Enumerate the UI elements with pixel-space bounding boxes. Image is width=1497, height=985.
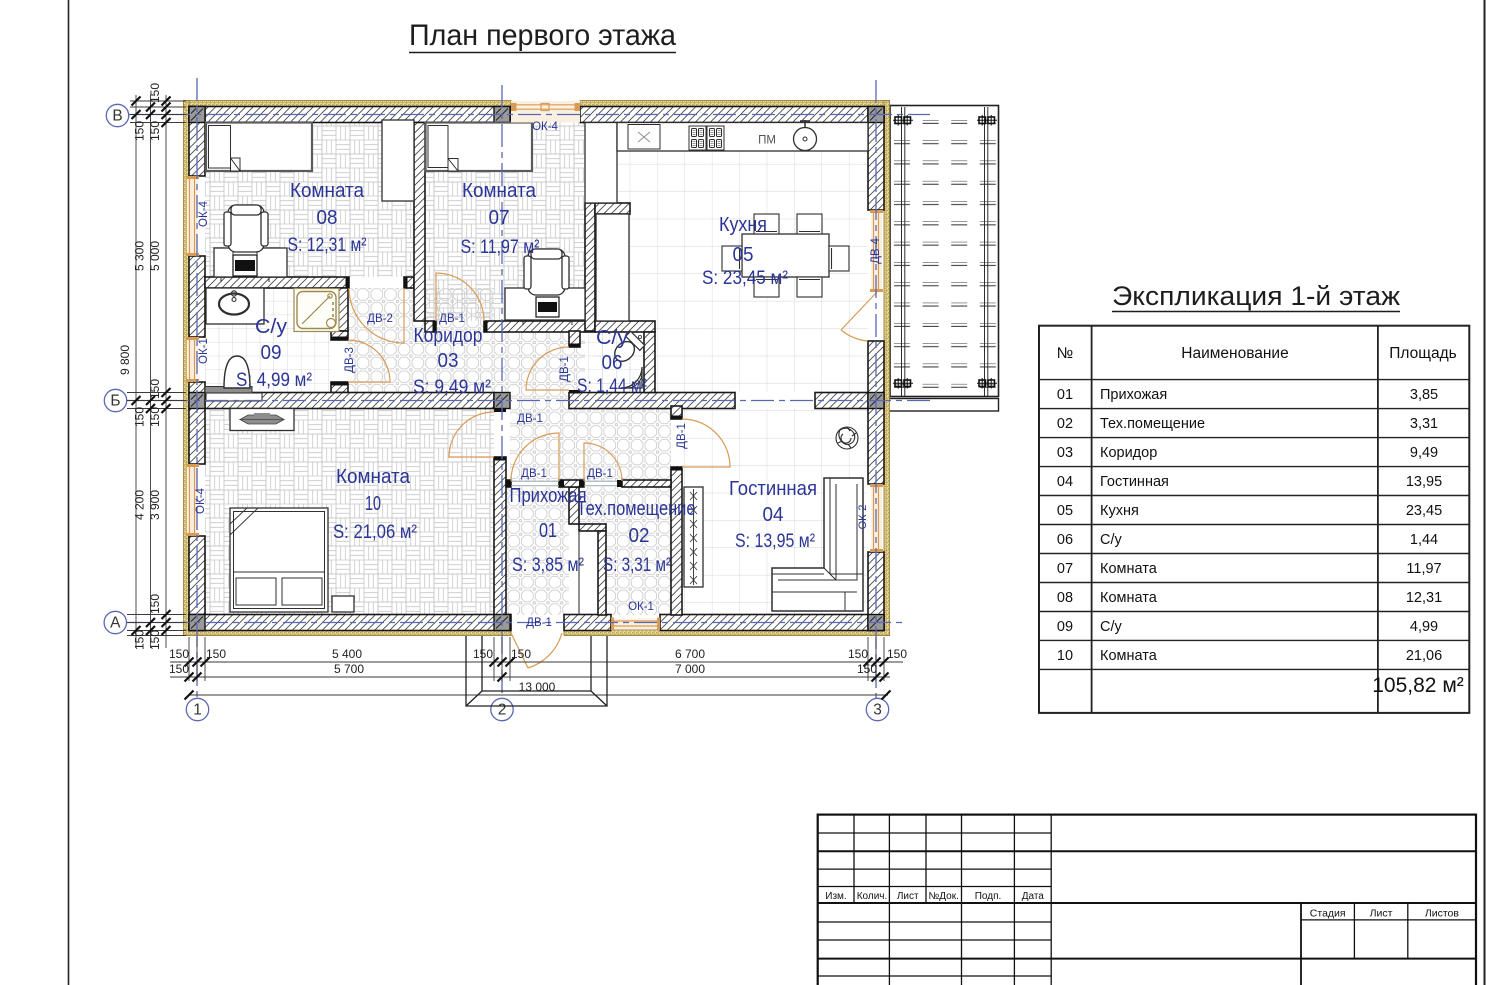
svg-text:S: 12,31 м²: S: 12,31 м² [288, 234, 367, 256]
wall exterior top right segment [580, 107, 884, 123]
desk room 07 [505, 288, 585, 320]
svg-text:Коридор: Коридор [414, 324, 483, 347]
heater living room [684, 487, 703, 587]
title block stamp [818, 815, 1476, 985]
wall axis B middle segment [569, 393, 735, 409]
kitchen stove [689, 126, 724, 150]
door DV-4 kitchen terrace [841, 292, 877, 341]
terrace corner fixings [893, 115, 997, 389]
svg-text:04: 04 [763, 503, 784, 526]
svg-text:04: 04 [1057, 474, 1073, 490]
dimension labels left [118, 83, 162, 650]
bed room 07 [426, 123, 533, 172]
svg-text:ОК-2: ОК-2 [857, 505, 869, 530]
svg-text:105,82 м²: 105,82 м² [1372, 674, 1464, 697]
sheet frame left border [68, 0, 70, 985]
window part of door DV-4 [870, 210, 883, 292]
dresser room 10 [230, 409, 294, 431]
svg-text:Гостинная: Гостинная [729, 477, 817, 500]
axis line Bb horizontal [127, 400, 930, 402]
tile floor corridor 03 [348, 288, 585, 409]
svg-text:4 200: 4 200 [133, 490, 147, 520]
door DV-1 living room [682, 419, 730, 467]
wall exterior bottom middle segment [564, 615, 611, 631]
svg-text:А: А [110, 615, 121, 632]
insulation bottom-left segment [184, 630, 512, 636]
wall hall south stub left [506, 480, 511, 487]
door DV-2 room 08 [349, 288, 404, 343]
svg-text:ДВ-1: ДВ-1 [676, 423, 688, 449]
door DV-1 room 07 [436, 273, 484, 321]
computer room 07 [523, 297, 572, 325]
svg-text:№Док.: №Док. [929, 891, 959, 902]
svg-text:150: 150 [169, 647, 189, 661]
sink bathroom 06 [621, 367, 642, 388]
bed room 10 [230, 508, 328, 612]
door DV-1 hallway 01 [511, 433, 559, 481]
door DV-3 bathroom 09 [348, 340, 390, 382]
window OK-1 left wall bathroom 09 [186, 337, 199, 382]
svg-text:С/у: С/у [596, 326, 629, 349]
wall room08 south [205, 277, 349, 288]
svg-text:С/у: С/у [1100, 619, 1123, 635]
svg-text:7 000: 7 000 [675, 662, 705, 676]
tile floor kitchen 05 [595, 123, 868, 393]
wall exterior top left segment [189, 107, 511, 123]
svg-text:S: 9,49 м²: S: 9,49 м² [413, 376, 491, 398]
svg-text:Тех.помещение: Тех.помещение [577, 497, 696, 520]
room label Тех.помещение 02 [577, 497, 696, 547]
svg-text:Изм.: Изм. [825, 891, 846, 902]
wall axis B right segment [815, 393, 868, 409]
kitchen pot [794, 120, 817, 151]
svg-text:06: 06 [1057, 532, 1073, 548]
wall hallway01 tech02 upper [569, 487, 579, 524]
wall bathroom06 east [644, 332, 655, 393]
structural columns at axis intersections [189, 107, 884, 631]
svg-text:Площадь: Площадь [1389, 345, 1456, 362]
svg-text:08: 08 [1057, 590, 1073, 606]
wall exterior left segment 4 [189, 536, 205, 631]
svg-text:09: 09 [1057, 619, 1073, 635]
window OK-4 left wall room 10 [186, 464, 199, 536]
svg-text:Тех.помещение: Тех.помещение [1100, 416, 1205, 432]
room label Коридор 03 [414, 324, 483, 372]
entrance door DV-1 [511, 633, 562, 668]
desk room 08 [214, 248, 287, 277]
room label Комната 07 [462, 179, 537, 229]
svg-text:3 900: 3 900 [148, 490, 162, 520]
insulation left [184, 101, 190, 636]
door jamb caps [331, 277, 682, 487]
axis bubble A [104, 611, 126, 633]
parquet floor room 07 [425, 123, 585, 322]
explication header [1057, 345, 1457, 362]
svg-text:1: 1 [193, 702, 202, 719]
room label С/у 06 [596, 326, 629, 374]
svg-text:13 000: 13 000 [519, 680, 556, 694]
svg-text:3: 3 [873, 702, 882, 719]
door DV-1 bathroom 06 [526, 347, 569, 390]
svg-text:Прихожая: Прихожая [510, 484, 587, 507]
wall corridor north jamb [425, 321, 436, 332]
svg-text:12,31: 12,31 [1406, 590, 1442, 606]
room label Комната 10 [336, 465, 411, 515]
svg-text:Кухня: Кухня [719, 213, 767, 236]
svg-text:02: 02 [1057, 416, 1073, 432]
plant living room [836, 427, 858, 449]
svg-text:Наименование: Наименование [1181, 345, 1288, 362]
svg-text:Коридор: Коридор [1100, 445, 1157, 461]
insulation top-left segment [184, 101, 512, 107]
window OK-1 bottom wall tech 02 [611, 618, 660, 631]
svg-text:10: 10 [1057, 648, 1073, 664]
svg-text:150: 150 [848, 647, 868, 661]
svg-text:150: 150 [148, 630, 162, 650]
wall exterior bottom right segment [660, 615, 884, 631]
wall bathroom09 east jamb bottom [331, 382, 348, 393]
wall between rooms 08 and 07 [414, 123, 425, 322]
wall kitchen stub [595, 203, 630, 214]
explication title [1112, 281, 1400, 312]
sheet frame right border [1484, 0, 1486, 985]
svg-text:150: 150 [148, 594, 162, 614]
svg-text:ДВ-2: ДВ-2 [367, 313, 393, 325]
axis bubble 1 [186, 698, 208, 720]
svg-text:ОК-1: ОК-1 [198, 338, 210, 364]
room label Комната 08 [290, 179, 365, 229]
svg-text:Комната: Комната [1100, 590, 1158, 606]
svg-text:150: 150 [511, 647, 531, 661]
wall axis B left segment [205, 393, 494, 409]
svg-text:S: 1,44 м²: S: 1,44 м² [577, 375, 647, 397]
svg-text:Лист: Лист [897, 891, 919, 902]
bed room 08 [206, 123, 312, 172]
vanity bathroom 09 [206, 288, 264, 324]
dimension ticks bottom [185, 658, 891, 700]
svg-text:Подп.: Подп. [975, 891, 1002, 902]
tile floor tech room 02 [579, 487, 671, 615]
svg-text:ДВ-1: ДВ-1 [439, 313, 465, 325]
svg-text:10: 10 [365, 492, 381, 515]
chair room 08 [224, 205, 268, 252]
svg-text:05: 05 [1057, 503, 1073, 519]
svg-text:S: 11,97 м²: S: 11,97 м² [461, 236, 540, 258]
svg-text:150: 150 [148, 379, 162, 399]
room label С/у 09 [255, 315, 288, 364]
hallway01 niche edge [578, 531, 580, 615]
svg-text:План первого этажа: План первого этажа [409, 19, 676, 52]
tile floor hall [510, 409, 671, 481]
svg-text:Комната: Комната [290, 179, 365, 202]
opening threshold tech02 [584, 481, 622, 485]
svg-text:ДВ-1: ДВ-1 [526, 617, 552, 629]
wall bathroom06 west jamb [569, 331, 580, 347]
svg-text:С/у: С/у [255, 315, 288, 338]
svg-text:150: 150 [887, 647, 907, 661]
terrace deck [890, 106, 999, 397]
svg-text:9,49: 9,49 [1410, 445, 1438, 461]
svg-text:9 800: 9 800 [118, 345, 132, 375]
svg-text:№: № [1057, 345, 1074, 362]
wall exterior left segment 2 [189, 256, 205, 337]
axis line 2 vertical [501, 85, 503, 698]
svg-text:Кухня: Кухня [1100, 503, 1139, 519]
dimension extension lines left [127, 95, 186, 648]
parquet floor room 08 [205, 123, 414, 278]
tile floor living room 04 [682, 409, 868, 615]
svg-text:150: 150 [133, 630, 147, 650]
kitchen counter [617, 123, 868, 152]
svg-text:ОК-4: ОК-4 [532, 121, 558, 133]
axis line A horizontal [127, 622, 907, 624]
wall hallway01 tech02 step [579, 524, 606, 531]
svg-text:01: 01 [1057, 387, 1073, 403]
wall corridor north [484, 321, 595, 332]
svg-text:150: 150 [169, 662, 189, 676]
wall hallway01 tech02 lower [598, 531, 606, 615]
svg-text:ОК-4: ОК-4 [195, 487, 207, 513]
axis line 1 vertical [196, 78, 198, 698]
parquet floor room 10 [205, 409, 494, 615]
svg-text:23,45: 23,45 [1406, 503, 1442, 519]
wall bathroom09 east jamb top [331, 331, 348, 340]
drawing title [409, 19, 676, 53]
svg-text:Б: Б [110, 393, 120, 410]
tile floor bathroom 06 [580, 332, 644, 393]
svg-text:Комната: Комната [1100, 648, 1158, 664]
sofa living room [772, 478, 863, 611]
door DV-1 room 10 [449, 412, 494, 457]
svg-text:Листов: Листов [1425, 908, 1460, 920]
svg-text:150: 150 [148, 83, 162, 103]
svg-text:1,44: 1,44 [1410, 532, 1438, 548]
axis line 3 vertical [875, 80, 877, 698]
svg-text:150: 150 [473, 647, 493, 661]
window OK-2 right wall living room [870, 484, 883, 552]
kitchen pantry cabinet [596, 214, 629, 321]
door DV-1 tech room 02 [584, 443, 622, 481]
svg-text:07: 07 [489, 206, 510, 229]
svg-text:150: 150 [857, 662, 877, 676]
svg-text:Дата: Дата [1022, 891, 1045, 902]
svg-text:150: 150 [133, 407, 147, 427]
nightstand room 10 [332, 596, 354, 612]
svg-text:S: 13,95 м²: S: 13,95 м² [735, 530, 815, 552]
dimension extension lines bottom [170, 637, 903, 695]
room label Гостинная 04 [729, 477, 817, 526]
svg-text:13,95: 13,95 [1406, 474, 1442, 490]
svg-text:11,97: 11,97 [1406, 561, 1441, 577]
explication table grid [1039, 326, 1469, 713]
svg-text:02: 02 [629, 524, 650, 547]
kitchen table [742, 234, 829, 277]
svg-text:2: 2 [498, 702, 507, 719]
svg-text:07: 07 [1057, 561, 1073, 577]
svg-text:6 700: 6 700 [675, 647, 705, 661]
wall room07 kitchen [585, 203, 595, 331]
explication rows [1057, 387, 1442, 664]
svg-text:01: 01 [539, 519, 557, 542]
window OK-4 top wall room 07 [511, 101, 580, 123]
wall living room west [671, 467, 682, 615]
svg-text:150: 150 [133, 121, 147, 141]
axis bubble 2 [491, 698, 513, 720]
dimension ticks left chains [132, 97, 171, 636]
wardrobe room 08 [382, 120, 414, 201]
wall exterior right segment 1 [868, 107, 884, 211]
wall exterior left segment 1 [189, 107, 205, 177]
insulation right [884, 101, 890, 636]
svg-text:Комната: Комната [1100, 561, 1158, 577]
dimension labels bottom [169, 647, 907, 694]
shower bathroom 09 [294, 289, 339, 332]
svg-text:03: 03 [1057, 445, 1073, 461]
svg-text:ДВ-1: ДВ-1 [559, 356, 571, 382]
svg-text:ОК-1: ОК-1 [628, 601, 654, 613]
window OK-4 left wall room 08 [186, 176, 199, 256]
svg-text:150: 150 [148, 121, 162, 141]
svg-text:ОК-4: ОК-4 [198, 200, 210, 226]
computer room 08 [221, 251, 269, 282]
toilet bathroom 06 [610, 331, 645, 366]
svg-text:5 700: 5 700 [334, 662, 364, 676]
axis line B horizontal [128, 114, 930, 116]
svg-text:ДВ-1: ДВ-1 [587, 468, 613, 480]
svg-text:Гостинная: Гостинная [1100, 474, 1169, 490]
svg-text:09: 09 [261, 341, 282, 364]
svg-text:21,06: 21,06 [1406, 648, 1442, 664]
tile floor hallway 01 [506, 487, 569, 615]
svg-text:03: 03 [438, 349, 459, 372]
svg-text:4,99: 4,99 [1410, 619, 1438, 635]
svg-text:ПМ: ПМ [758, 135, 776, 147]
svg-text:5 000: 5 000 [148, 241, 162, 271]
svg-text:В: В [112, 108, 122, 125]
svg-text:ДВ-4: ДВ-4 [870, 238, 882, 264]
svg-text:08: 08 [317, 206, 338, 229]
svg-text:S: 23,45 м²: S: 23,45 м² [702, 267, 788, 289]
svg-text:06: 06 [602, 351, 623, 374]
svg-text:3,85: 3,85 [1410, 387, 1438, 403]
wall bathroom09 east upper [331, 288, 348, 331]
axis bubble 3 [866, 698, 888, 720]
room label Прихожая 01 [510, 484, 587, 542]
wall room08 south jamb [404, 277, 414, 288]
svg-text:ДВ-3: ДВ-3 [344, 347, 356, 373]
wall exterior left segment 3 [189, 382, 205, 464]
toilet bathroom 09 [205, 356, 262, 401]
svg-text:3,31: 3,31 [1410, 416, 1438, 432]
svg-text:ДВ-1: ДВ-1 [521, 468, 547, 480]
svg-text:С/у: С/у [1100, 532, 1123, 548]
wall hall south stub middle [559, 480, 584, 487]
svg-text:Комната: Комната [462, 179, 537, 202]
axis bubble V [106, 104, 128, 126]
tile floor bathroom 09 [205, 288, 331, 393]
svg-text:5 300: 5 300 [133, 241, 147, 271]
wall exterior right segment 2 [868, 341, 884, 484]
kitchen sink [628, 125, 660, 150]
wall hallway01 west [494, 457, 506, 615]
wall exterior bottom left segment [189, 615, 511, 631]
svg-text:S: 3,31 м²: S: 3,31 м² [603, 554, 671, 576]
wall hall south stub right [622, 480, 671, 487]
svg-text:5 400: 5 400 [332, 647, 362, 661]
wall exterior right segment 3 [868, 552, 884, 631]
svg-text:Комната: Комната [336, 465, 411, 488]
svg-text:Экспликация 1-й этаж: Экспликация 1-й этаж [1112, 281, 1400, 311]
svg-text:Колич.: Колич. [857, 891, 888, 902]
wall bathroom06 north [595, 321, 655, 332]
svg-text:05: 05 [733, 243, 754, 266]
kitchen chairs [722, 214, 849, 297]
insulation bottom-right segment [564, 630, 890, 636]
svg-text:150: 150 [206, 647, 226, 661]
entrance porch [466, 636, 607, 706]
kitchen tall cabinet [585, 123, 617, 204]
terrace bottom step [868, 399, 999, 412]
insulation top-right segment [580, 101, 890, 107]
svg-text:Прихожая: Прихожая [1100, 387, 1167, 403]
chair room 07 [524, 249, 569, 295]
svg-text:S: 3,85 м²: S: 3,85 м² [512, 554, 584, 576]
svg-text:Лист: Лист [1370, 908, 1393, 920]
room label Кухня 05 [719, 213, 767, 266]
opening threshold hallway01 [511, 481, 559, 485]
svg-text:Стадия: Стадия [1310, 908, 1346, 920]
axis bubble B [104, 389, 126, 411]
wall living room west jamb [671, 406, 682, 419]
title block labels [825, 891, 1459, 920]
svg-text:S: 4,99 м²: S: 4,99 м² [236, 369, 312, 391]
svg-text:ДВ-1: ДВ-1 [517, 413, 543, 425]
svg-text:150: 150 [148, 407, 162, 427]
svg-text:S: 21,06 м²: S: 21,06 м² [333, 521, 417, 543]
